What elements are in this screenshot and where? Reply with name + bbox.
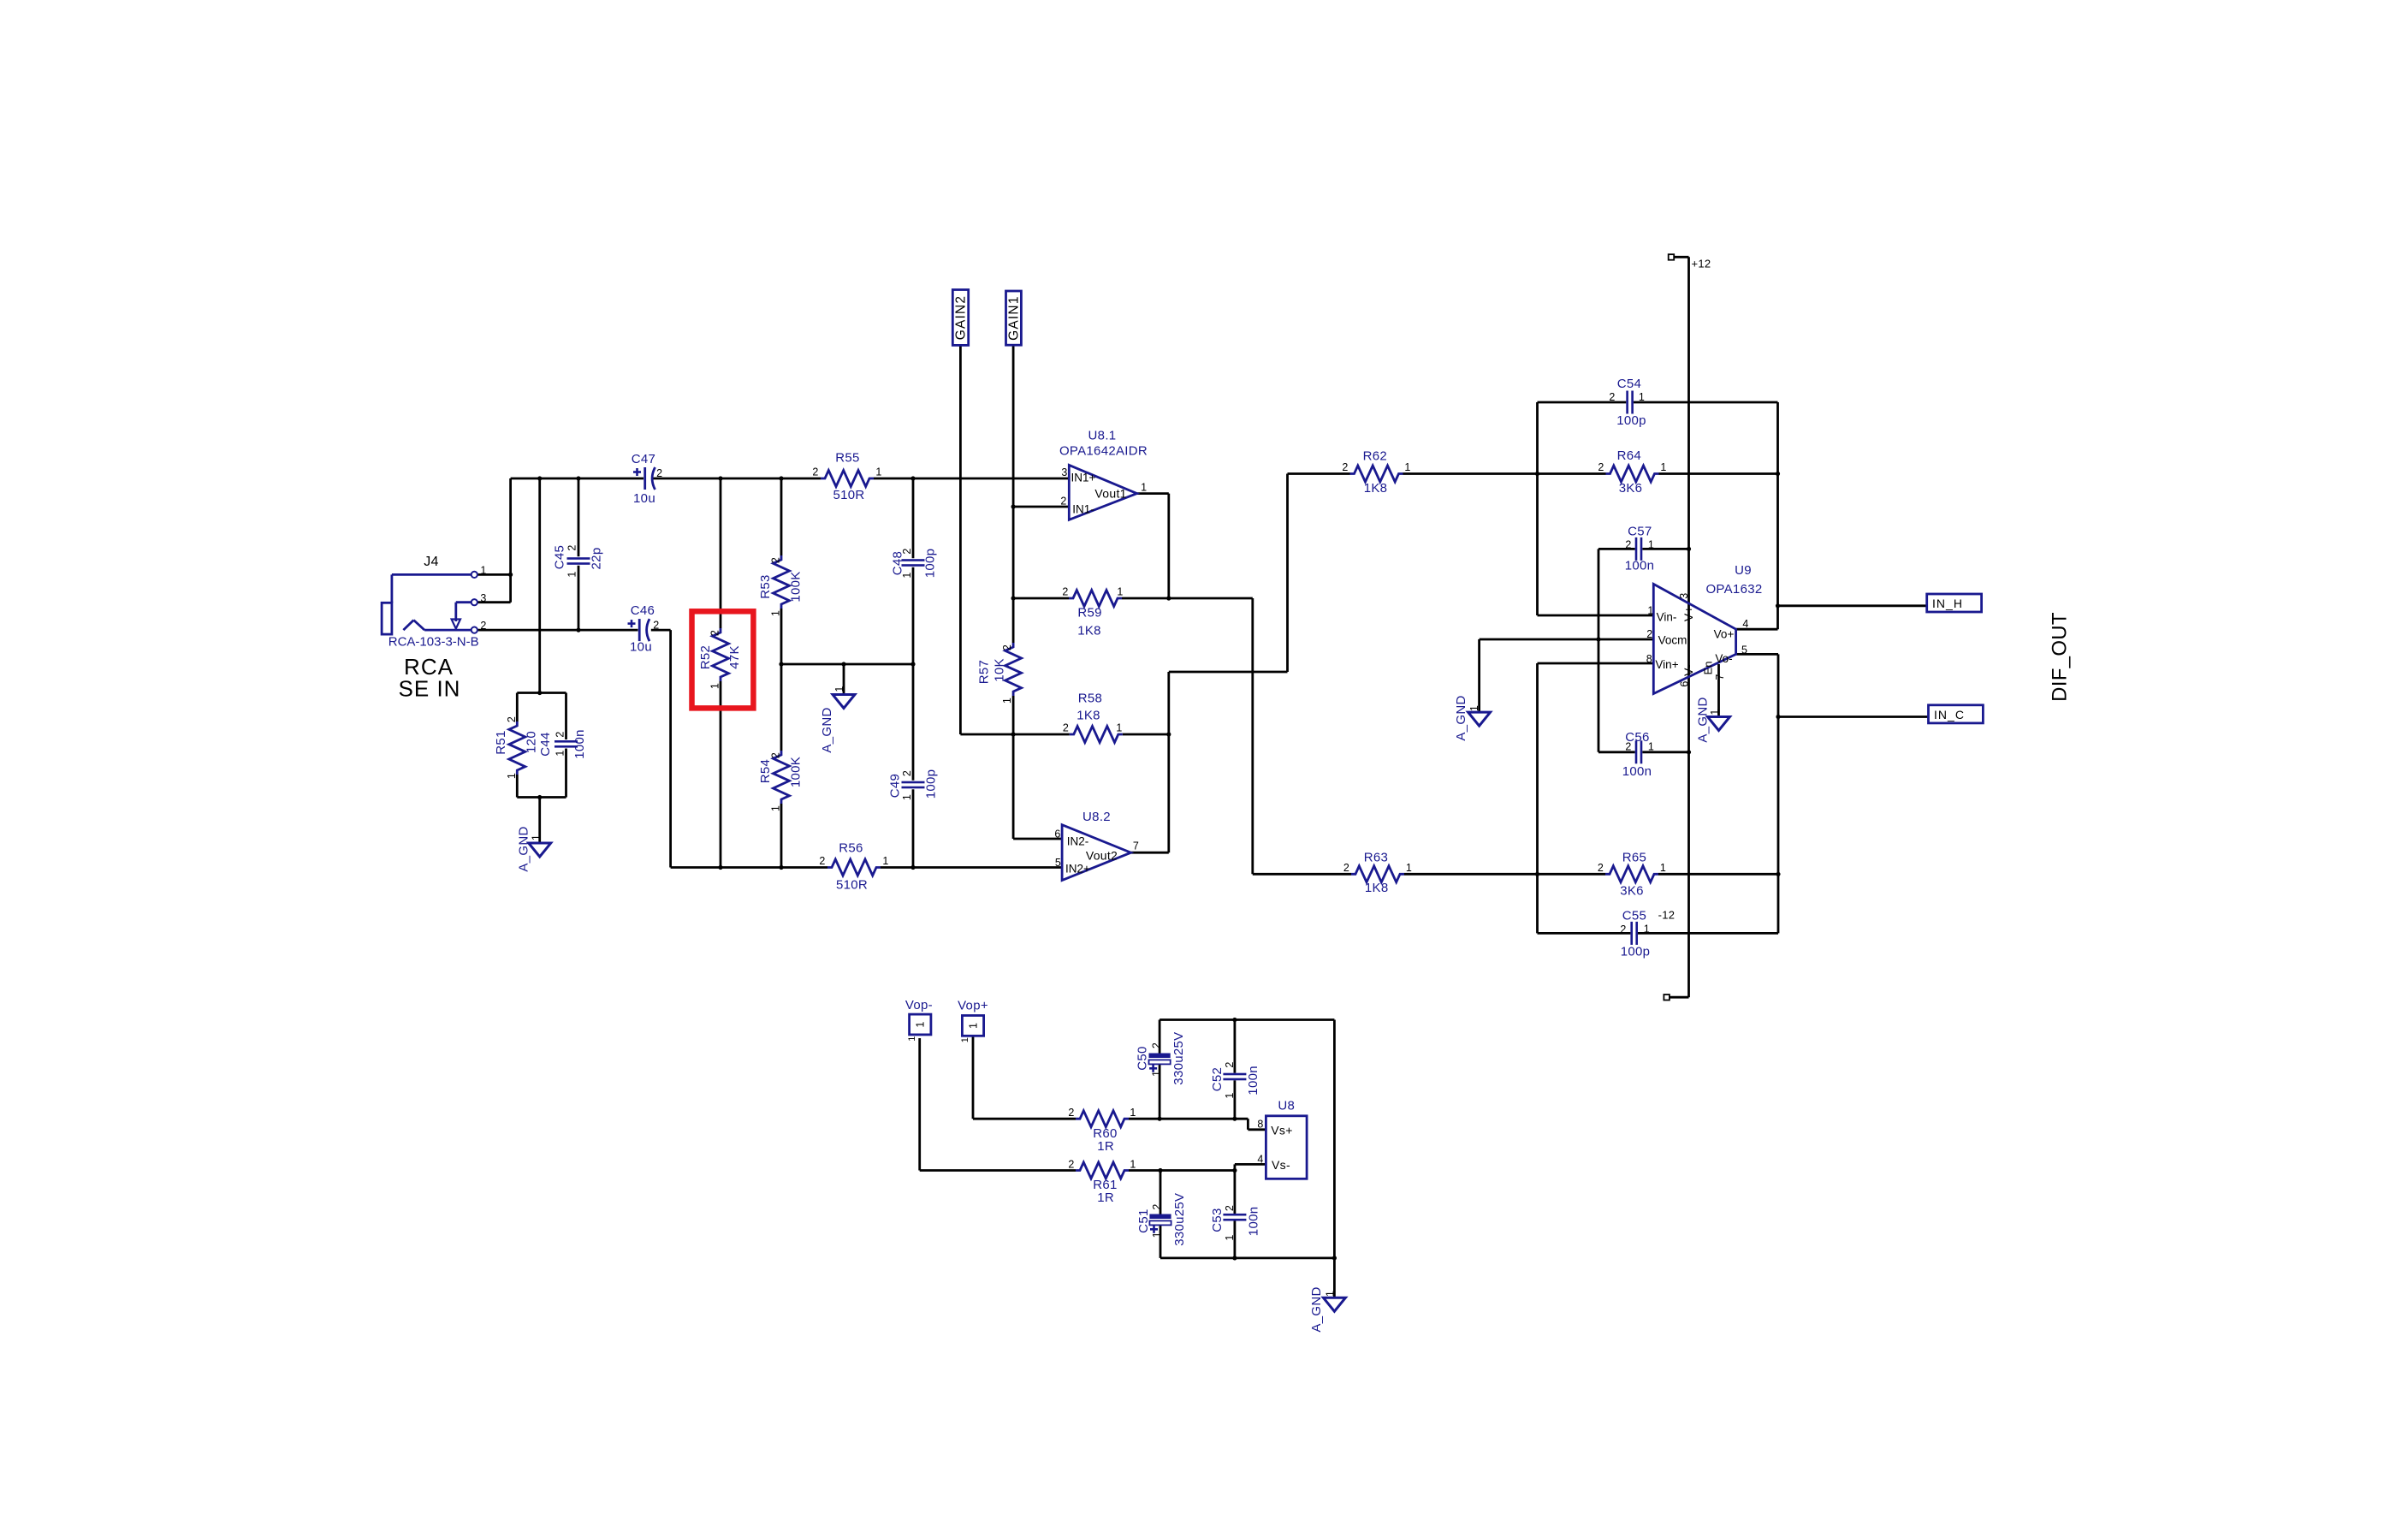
svg-text:R52: R52	[698, 645, 713, 669]
wire	[1538, 615, 1654, 617]
svg-text:A_GND: A_GND	[820, 707, 834, 752]
svg-text:100n: 100n	[1622, 764, 1652, 779]
svg-text:2: 2	[1224, 1061, 1236, 1067]
wire	[781, 663, 913, 666]
resistor R55	[821, 471, 874, 487]
svg-text:120: 120	[525, 731, 539, 753]
wire	[972, 1036, 975, 1119]
svg-text:1: 1	[967, 1023, 979, 1029]
svg-text:1: 1	[1151, 1071, 1163, 1077]
svg-text:2: 2	[819, 855, 825, 867]
svg-text:1: 1	[506, 773, 518, 779]
wire	[1248, 1128, 1266, 1131]
wire	[1634, 401, 1778, 404]
svg-text:Vo-: Vo-	[1715, 652, 1732, 665]
svg-text:+12: +12	[1692, 258, 1711, 270]
svg-text:R57: R57	[977, 660, 992, 684]
svg-text:R63: R63	[1364, 850, 1388, 864]
capacitor C57	[1635, 537, 1643, 561]
svg-text:A_GND: A_GND	[1454, 695, 1468, 740]
wire	[1251, 598, 1254, 874]
wire	[1536, 474, 1539, 616]
junction	[508, 573, 513, 577]
junction	[779, 662, 783, 666]
svg-text:1: 1	[566, 571, 578, 577]
svg-text:1: 1	[875, 466, 881, 478]
svg-text:1: 1	[1325, 1291, 1337, 1297]
svg-text:R58: R58	[1078, 692, 1102, 706]
wire	[1234, 1171, 1237, 1214]
svg-text:Vs-: Vs-	[1272, 1158, 1290, 1172]
capacitor C46	[628, 619, 650, 641]
wire	[538, 798, 541, 844]
junction	[910, 476, 915, 480]
junction	[1166, 732, 1171, 736]
wire	[578, 478, 580, 556]
svg-text:1: 1	[1709, 709, 1721, 715]
svg-text:2: 2	[1060, 496, 1066, 508]
wire	[780, 609, 783, 664]
junction	[1776, 715, 1780, 719]
wire	[1129, 1169, 1235, 1172]
wire	[881, 866, 1062, 869]
svg-text:1: 1	[770, 805, 782, 811]
svg-text:3K6: 3K6	[1619, 481, 1643, 496]
svg-text:100n: 100n	[572, 729, 587, 759]
svg-text:6: 6	[1054, 828, 1060, 840]
wire	[1778, 604, 1927, 607]
svg-text:100K: 100K	[789, 571, 804, 602]
svg-text:2: 2	[1625, 740, 1631, 752]
svg-text:1: 1	[1647, 605, 1653, 617]
svg-text:4: 4	[1257, 1154, 1263, 1166]
svg-text:1: 1	[1406, 862, 1412, 874]
svg-text:1K8: 1K8	[1364, 481, 1388, 496]
svg-text:R59: R59	[1077, 605, 1101, 620]
port Vop-	[910, 1014, 931, 1035]
svg-text:10K: 10K	[993, 658, 1007, 682]
svg-text:R62: R62	[1363, 449, 1387, 464]
capacitor C47	[633, 467, 655, 490]
svg-text:2: 2	[1598, 461, 1604, 473]
svg-text:1: 1	[960, 1037, 970, 1042]
wire	[1480, 638, 1598, 641]
svg-text:3K6: 3K6	[1620, 884, 1644, 899]
junction	[1776, 872, 1780, 876]
svg-text:IN1-: IN1-	[1072, 503, 1094, 516]
svg-text:1: 1	[1130, 1159, 1136, 1171]
wire	[1538, 401, 1627, 404]
wire	[780, 804, 783, 868]
wire	[1122, 597, 1253, 600]
svg-text:2: 2	[901, 770, 913, 776]
junction	[841, 662, 845, 666]
svg-text:3: 3	[480, 592, 486, 604]
svg-text:2: 2	[1063, 722, 1069, 734]
wire	[720, 681, 722, 868]
junction	[718, 865, 722, 870]
wire	[1137, 492, 1169, 495]
junction	[537, 691, 542, 695]
svg-text:2: 2	[901, 548, 913, 554]
wire	[653, 478, 821, 480]
wire	[1253, 873, 1351, 876]
ground A_GND (U9 left)	[1468, 712, 1491, 726]
junction	[1232, 1168, 1237, 1173]
IC U8 (power pins)	[1266, 1116, 1307, 1179]
svg-text:1: 1	[1130, 1107, 1136, 1119]
resistor R54	[774, 751, 790, 804]
svg-text:SE IN: SE IN	[399, 676, 461, 702]
highlight box (red) around R52	[692, 611, 754, 708]
wire	[1160, 1226, 1162, 1258]
svg-text:2: 2	[656, 467, 662, 479]
svg-text:Vs+: Vs+	[1271, 1124, 1292, 1137]
power flag -12	[1664, 995, 1670, 1001]
ground A_GND (mid)	[833, 695, 855, 709]
svg-text:330u25V: 330u25V	[1171, 1032, 1186, 1085]
svg-text:1: 1	[1117, 586, 1123, 598]
wire	[1129, 1118, 1248, 1120]
svg-text:U8.1: U8.1	[1088, 429, 1117, 443]
svg-text:U8.2: U8.2	[1082, 810, 1111, 824]
junction	[576, 476, 580, 480]
svg-text:Vin-: Vin-	[1657, 611, 1677, 624]
svg-text:RCA-103-3-N-B: RCA-103-3-N-B	[388, 634, 479, 649]
wire	[1160, 1018, 1334, 1021]
capacitor C48	[902, 559, 925, 567]
svg-text:1R: 1R	[1097, 1139, 1114, 1154]
net label IN_H	[1927, 594, 1982, 612]
svg-text:R51: R51	[494, 730, 508, 754]
svg-text:Vo+: Vo+	[1714, 628, 1735, 641]
wire	[1538, 932, 1631, 935]
svg-text:5: 5	[1055, 857, 1061, 869]
wire	[651, 629, 671, 632]
svg-text:1: 1	[1001, 698, 1013, 704]
svg-text:1: 1	[1151, 1232, 1163, 1238]
ground A_GND (supply)	[1323, 1297, 1345, 1311]
wire	[477, 573, 511, 576]
wire	[960, 733, 1013, 736]
junction	[1158, 1168, 1162, 1173]
wire	[1598, 549, 1600, 639]
svg-text:510R: 510R	[833, 488, 864, 502]
svg-text:2: 2	[770, 557, 782, 563]
capacitor C52	[1223, 1073, 1246, 1081]
svg-text:IN1+: IN1+	[1071, 472, 1096, 484]
svg-text:1: 1	[480, 565, 486, 577]
svg-text:47K: 47K	[727, 645, 742, 669]
junction	[1166, 596, 1171, 600]
svg-text:2: 2	[1620, 923, 1626, 935]
svg-text:1: 1	[1116, 722, 1122, 734]
svg-text:8: 8	[1257, 1119, 1263, 1131]
wire	[720, 478, 722, 628]
wire	[517, 692, 566, 694]
svg-text:IN2+: IN2+	[1065, 863, 1090, 876]
net label GAIN1	[1006, 291, 1022, 345]
svg-text:1: 1	[901, 794, 913, 800]
wire	[509, 478, 512, 603]
junction	[537, 795, 542, 799]
svg-text:R55: R55	[835, 451, 859, 466]
svg-text:1: 1	[1224, 1092, 1236, 1098]
svg-text:8: 8	[1646, 653, 1652, 665]
svg-text:A_GND: A_GND	[1309, 1286, 1324, 1332]
wire	[477, 629, 638, 632]
svg-text:100n: 100n	[1247, 1207, 1261, 1237]
svg-text:3: 3	[1678, 592, 1690, 598]
svg-text:1: 1	[915, 1021, 927, 1027]
svg-text:5: 5	[1741, 644, 1747, 656]
svg-text:2: 2	[555, 731, 566, 737]
junction	[1776, 472, 1780, 476]
resistor R61	[1076, 1162, 1129, 1179]
resistor R52	[713, 628, 729, 681]
wire	[669, 630, 672, 867]
wire	[918, 1038, 921, 1171]
svg-text:C51: C51	[1136, 1208, 1151, 1232]
wire	[1012, 734, 1015, 839]
svg-text:1: 1	[901, 572, 913, 578]
junction	[1687, 750, 1691, 754]
svg-text:Vout2: Vout2	[1086, 849, 1118, 863]
svg-text:1: 1	[833, 686, 845, 692]
svg-text:330u25V: 330u25V	[1172, 1193, 1187, 1246]
svg-text:2: 2	[480, 620, 486, 632]
wire	[912, 567, 915, 664]
wire	[1012, 345, 1015, 507]
svg-text:1: 1	[1644, 923, 1650, 935]
svg-text:C52: C52	[1210, 1067, 1225, 1091]
resistor R56	[827, 859, 881, 876]
svg-text:1: 1	[1660, 862, 1666, 874]
wire	[1247, 1119, 1249, 1130]
svg-text:510R: 510R	[836, 878, 868, 893]
resistor R58	[1070, 727, 1123, 743]
wire	[1536, 874, 1539, 933]
op-amp U8.1	[1069, 465, 1136, 520]
wire	[1234, 1080, 1237, 1119]
svg-text:C45: C45	[553, 545, 567, 569]
svg-text:100p: 100p	[924, 769, 939, 799]
resistor R64	[1606, 466, 1659, 482]
svg-text:1: 1	[709, 683, 721, 689]
wire	[1159, 1020, 1161, 1054]
wire	[1123, 733, 1169, 736]
svg-text:1: 1	[907, 1036, 917, 1041]
junction	[1535, 472, 1539, 476]
svg-text:2: 2	[1224, 1205, 1236, 1211]
svg-text:R53: R53	[758, 574, 773, 598]
wire	[1674, 256, 1688, 258]
svg-text:2: 2	[1342, 461, 1348, 473]
svg-text:C47: C47	[632, 452, 655, 466]
wire	[1160, 1257, 1334, 1260]
junction	[910, 865, 915, 870]
wire	[1333, 1258, 1336, 1297]
junction	[779, 865, 783, 870]
svg-text:7: 7	[1714, 674, 1726, 680]
svg-text:1: 1	[1648, 539, 1654, 551]
svg-text:-12: -12	[1658, 909, 1676, 922]
svg-text:IN_H: IN_H	[1932, 597, 1963, 610]
junction	[1011, 732, 1016, 736]
svg-text:GAIN1: GAIN1	[1006, 295, 1021, 341]
wire	[1776, 402, 1779, 629]
wire	[1288, 472, 1350, 475]
svg-text:Vop-: Vop-	[905, 998, 933, 1012]
svg-text:C54: C54	[1617, 377, 1641, 391]
wire	[1013, 733, 1070, 736]
resistor R51	[509, 721, 525, 775]
wire	[1012, 507, 1015, 598]
svg-text:1: 1	[531, 834, 543, 840]
svg-text:C46: C46	[631, 603, 655, 618]
svg-text:Vin+: Vin+	[1655, 658, 1678, 671]
svg-text:C50: C50	[1136, 1046, 1150, 1070]
junction	[1232, 1018, 1237, 1022]
wire	[1777, 654, 1780, 874]
wire	[1642, 751, 1688, 753]
wire	[912, 478, 915, 558]
wire	[1235, 1163, 1266, 1166]
wire	[538, 478, 541, 693]
wire	[1012, 696, 1015, 734]
svg-text:1: 1	[1404, 461, 1410, 473]
wire	[1012, 598, 1015, 643]
svg-text:V-: V-	[1681, 664, 1695, 676]
svg-text:1K8: 1K8	[1076, 709, 1100, 723]
svg-text:C44: C44	[538, 732, 553, 756]
wire	[1536, 402, 1539, 474]
svg-text:1K8: 1K8	[1077, 624, 1101, 638]
svg-text:2: 2	[709, 630, 721, 636]
junction	[1776, 603, 1780, 608]
svg-text:2: 2	[1151, 1203, 1163, 1209]
wire	[565, 749, 567, 798]
svg-text:2: 2	[1068, 1107, 1074, 1119]
wire	[1717, 664, 1720, 717]
svg-text:R64: R64	[1617, 448, 1641, 463]
svg-text:Vocm: Vocm	[1658, 634, 1687, 647]
svg-text:J4: J4	[424, 555, 439, 569]
wire	[1234, 1164, 1237, 1170]
capacitor C51	[1149, 1214, 1171, 1233]
svg-text:6: 6	[1679, 680, 1691, 686]
svg-text:3: 3	[1061, 466, 1067, 478]
svg-text:1: 1	[1648, 740, 1654, 752]
svg-text:100K: 100K	[789, 757, 804, 787]
svg-text:100p: 100p	[1621, 945, 1651, 959]
svg-text:OPA1632: OPA1632	[1705, 582, 1762, 597]
svg-text:1: 1	[770, 610, 782, 616]
wire	[780, 478, 783, 555]
svg-text:7: 7	[1133, 840, 1139, 852]
wire	[1234, 1020, 1237, 1073]
wire	[959, 345, 962, 734]
svg-text:22p: 22p	[590, 548, 604, 570]
svg-text:2: 2	[1062, 586, 1068, 598]
svg-text:R65: R65	[1622, 851, 1646, 865]
svg-text:2: 2	[1001, 644, 1013, 650]
wire	[912, 664, 915, 781]
svg-text:R56: R56	[839, 841, 863, 856]
junction	[537, 476, 542, 480]
svg-text:En: En	[1702, 662, 1715, 675]
wire	[1538, 662, 1654, 665]
svg-text:1: 1	[1639, 391, 1645, 403]
wire	[1286, 474, 1289, 673]
wire	[874, 478, 1069, 480]
wire	[1333, 1020, 1336, 1258]
wire	[1013, 506, 1069, 508]
svg-text:GAIN2: GAIN2	[953, 295, 968, 341]
svg-text:Vop+: Vop+	[958, 999, 988, 1013]
svg-text:1: 1	[882, 855, 888, 867]
svg-text:C57: C57	[1628, 525, 1652, 539]
wire	[1013, 838, 1062, 840]
ground A_GND (U9 En)	[1708, 717, 1730, 731]
svg-text:1: 1	[1468, 705, 1480, 711]
junction	[1158, 1117, 1162, 1121]
capacitor C45	[567, 557, 590, 565]
wire	[1478, 639, 1480, 712]
svg-text:2: 2	[1625, 539, 1631, 551]
wire	[1013, 597, 1069, 600]
svg-text:1: 1	[555, 750, 566, 756]
junction	[576, 628, 580, 632]
resistor R57	[1005, 643, 1022, 696]
junction	[1535, 872, 1539, 876]
net label IN_C	[1929, 705, 1984, 723]
op-amp U9	[1653, 584, 1735, 693]
wire	[973, 1118, 1076, 1120]
resistor R53	[774, 555, 790, 609]
svg-text:100n: 100n	[1625, 559, 1655, 573]
svg-text:C55: C55	[1622, 909, 1646, 923]
svg-text:2: 2	[1598, 862, 1604, 874]
resistor R59	[1069, 591, 1122, 607]
wire	[1638, 932, 1778, 935]
wire	[1167, 494, 1170, 598]
wire	[1404, 873, 1605, 876]
svg-text:IN_C: IN_C	[1934, 708, 1965, 721]
wire	[1598, 638, 1653, 641]
wire	[1598, 639, 1600, 752]
wire	[516, 693, 519, 722]
wire	[1777, 874, 1780, 933]
svg-text:100p: 100p	[923, 549, 938, 579]
svg-text:100n: 100n	[1246, 1066, 1260, 1096]
capacitor C44	[555, 740, 578, 748]
wire	[1642, 548, 1688, 550]
wire	[516, 775, 519, 798]
svg-text:DIF_OUT: DIF_OUT	[2049, 612, 2072, 702]
svg-text:2: 2	[566, 544, 578, 550]
wire	[578, 566, 580, 630]
wire	[1778, 716, 1929, 718]
wire	[1131, 852, 1169, 854]
wire	[1670, 996, 1689, 999]
wire	[1159, 1065, 1161, 1119]
capacitor C56	[1635, 740, 1643, 763]
junction	[1596, 637, 1600, 641]
svg-text:2: 2	[812, 466, 818, 478]
resistor R65	[1605, 866, 1658, 882]
svg-text:4: 4	[1742, 618, 1748, 630]
